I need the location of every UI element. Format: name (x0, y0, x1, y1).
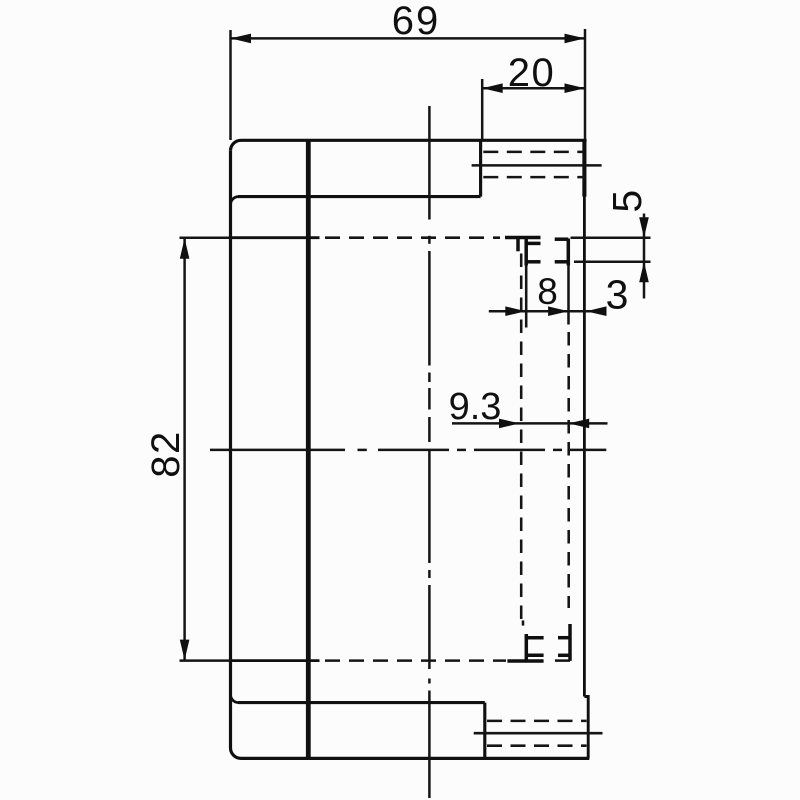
hidden line bottom right short dash y660.5 (555, 659, 570, 662)
arrow mid (points right at 568.6) (548, 306, 569, 316)
thread hole bottom centerline (474, 732, 603, 735)
arrow 5 lower (points up) (639, 262, 649, 283)
thread hole top dashed lines (483, 152, 585, 177)
slot bottom dashed stub x523 (522, 620, 525, 625)
slot top T stem (516, 238, 520, 251)
svg-text:5: 5 (604, 190, 650, 213)
outline step edge lower y703 (238, 701, 485, 704)
outline bottom-left rounded corner (231, 748, 242, 758)
outline bottom edge (241, 757, 589, 760)
outline right face upper thick (582, 139, 586, 196)
arrow 20 right (565, 83, 586, 93)
fillet lower step to left edge (230, 695, 238, 703)
centerline horizontal chain y450 (210, 449, 606, 452)
arrow 69 right (565, 34, 586, 44)
outline left edge (229, 151, 232, 748)
outline right edge bottom jog (584, 697, 588, 759)
centerline vertical chain x429 (428, 106, 431, 798)
dimension 82 (180, 238, 231, 661)
outline step corner vertical x481 (479, 140, 482, 196)
flange face thick vertical x308 (306, 140, 311, 758)
dimension 5 (571, 214, 651, 299)
hidden vertical dashed x521 (520, 254, 523, 627)
svg-text:9.3: 9.3 (449, 386, 502, 428)
arrow 5 upper (points down) (639, 217, 649, 238)
slot bottom left bracket (526, 634, 543, 662)
hidden vertical dashed x568.7 (567, 332, 570, 608)
outline step edge upper y197 (238, 195, 481, 198)
svg-text:8: 8 (537, 271, 558, 312)
arrow 9.3 right (points left) (569, 419, 590, 429)
spigot bottom edge y660.5 solid (231, 659, 320, 662)
svg-text:69: 69 (392, 0, 441, 43)
extension of left bracket down to 8-dim (525, 266, 528, 328)
dimension 20 (482, 79, 585, 140)
arrow 82 top (180, 238, 190, 259)
slot top left bracket (526, 239, 540, 266)
slot top right bracket (555, 239, 569, 266)
svg-text:20: 20 (508, 51, 556, 95)
dimension 8 and 3 line (489, 310, 607, 313)
dimension 69 (231, 29, 586, 140)
arrow 82 bottom (180, 640, 190, 661)
thread hole top centerline (472, 164, 602, 167)
slot bottom right bracket (558, 624, 570, 661)
arrow 8 left (points right) (505, 306, 526, 316)
arrow 69 left (231, 34, 252, 44)
arrow 9.3 left (points right) (499, 419, 520, 429)
svg-text:82: 82 (144, 430, 188, 478)
svg-text:3: 3 (606, 272, 629, 318)
outline top-left rounded corner (231, 140, 242, 151)
slot top solid segment y237.5 (505, 236, 541, 240)
arrow 20 left (482, 83, 503, 93)
spigot top edge y237.5 solid (231, 236, 320, 239)
outline step corner vertical x485 bottom (483, 703, 486, 759)
outline right edge middle (583, 195, 586, 697)
thread hole bottom dashed lines (487, 721, 587, 746)
outline top edge (241, 139, 587, 142)
fillet upper step to left edge (230, 197, 238, 205)
arrow 3 right (points left) (586, 306, 607, 316)
extension tick x568.6 at 8-dim (567, 266, 570, 325)
hidden line bottom bore dashed y660.5 (325, 659, 506, 662)
hidden line top bore dashed y237.5 (325, 236, 500, 239)
dimension 9.3 (452, 422, 608, 425)
slot bottom solid segment y661 (507, 659, 543, 663)
